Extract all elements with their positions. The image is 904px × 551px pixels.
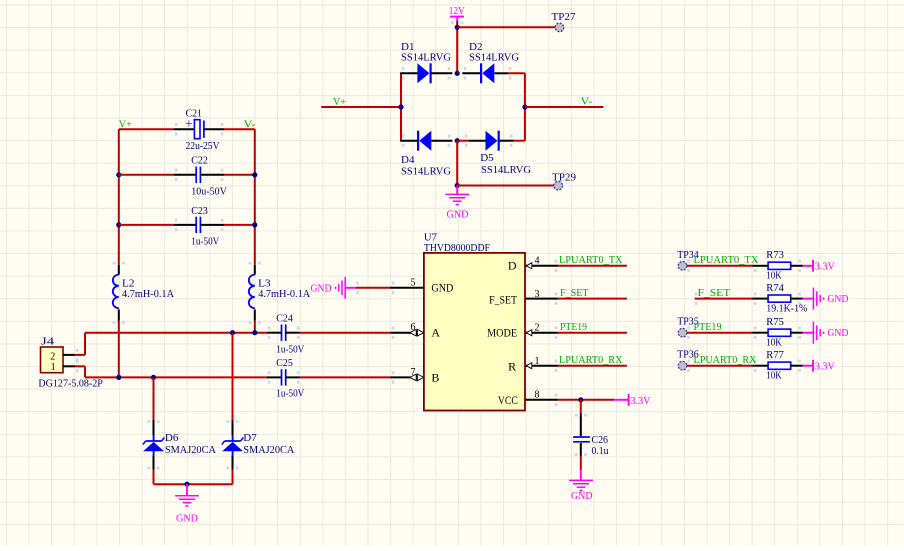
junction V- rail — [522, 104, 527, 109]
svg-text:D: D — [508, 259, 517, 273]
svg-text:PTE19: PTE19 — [560, 321, 587, 333]
svg-text:THVD8000DDF: THVD8000DDF — [424, 242, 490, 254]
net label V- cap bank — [244, 119, 256, 131]
pin number 2 — [535, 322, 540, 333]
svg-text:1u-50V: 1u-50V — [191, 235, 219, 247]
inductor L2 — [113, 275, 174, 309]
power symbol 3.3V R73 — [802, 260, 834, 273]
resistor R73 — [766, 249, 790, 281]
svg-text:GND: GND — [571, 490, 593, 502]
resistor R77 — [766, 349, 790, 381]
svg-text:1u-50V: 1u-50V — [276, 344, 304, 356]
pin name GND — [431, 281, 453, 295]
pin lead C24 right — [286, 332, 300, 334]
wire PTE19 — [558, 332, 627, 334]
IC U7 body — [424, 231, 525, 410]
svg-text:SS14LRVG: SS14LRVG — [469, 52, 519, 64]
junction C22 left — [116, 172, 121, 177]
capacitor C25 — [276, 357, 304, 400]
wire C21 row left — [119, 128, 175, 130]
svg-text:R77: R77 — [766, 349, 784, 361]
wire bridge bottom to GND node — [456, 141, 458, 186]
wire D7 to GND row — [232, 469, 234, 484]
svg-text:SS14LRVG: SS14LRVG — [401, 52, 451, 64]
net label PTE19 — [694, 321, 722, 333]
wire VCC node down — [580, 400, 582, 414]
svg-text:D6: D6 — [165, 432, 179, 444]
junction B rail L2 — [116, 375, 121, 380]
pin lead U7 pin1 R — [525, 363, 558, 369]
junction B rail D6 riser — [151, 375, 156, 380]
svg-text:10K: 10K — [766, 370, 782, 382]
pin number 1 — [535, 356, 540, 367]
svg-text:C23: C23 — [191, 205, 208, 217]
wire C21 row right — [224, 128, 255, 130]
junction C23 left — [116, 222, 121, 227]
svg-text:F_SET: F_SET — [489, 292, 518, 306]
wire V+ — [321, 106, 401, 108]
svg-text:22u-25V: 22u-25V — [186, 140, 220, 152]
wire J4 pin2 to A rail — [75, 333, 86, 355]
wire LPUART0_TX row — [687, 265, 753, 267]
pin number 8 — [535, 390, 540, 401]
svg-text:F_SET: F_SET — [560, 287, 589, 299]
svg-text:2: 2 — [50, 351, 55, 362]
svg-text:GND: GND — [176, 513, 198, 525]
pin lead U7 pin4 D — [525, 263, 558, 269]
pin lead C22 left — [174, 174, 196, 176]
pin lead D4 cathode — [400, 140, 417, 142]
svg-text:A: A — [431, 326, 440, 340]
pin number 4 — [535, 256, 540, 267]
wire L2 to B rail — [118, 321, 120, 378]
diode D7 — [222, 432, 295, 456]
svg-text:0.1u: 0.1u — [592, 445, 609, 457]
pin lead D5 cathode — [499, 140, 514, 142]
pin lead U7 pin2 MODE — [525, 330, 558, 336]
ground GND bridge — [445, 186, 469, 221]
pin lead D2 anode — [494, 72, 508, 74]
svg-text:J4: J4 — [41, 336, 55, 348]
pin lead U7 pin3 F_SET — [525, 298, 558, 300]
pin number 6 — [411, 322, 416, 333]
pin lead R75 right — [791, 332, 803, 334]
pin lead R77 right — [791, 365, 803, 367]
pin lead R74 left — [753, 298, 769, 300]
power symbol 3.3V R77 — [802, 360, 834, 373]
svg-text:LPUART0_RX: LPUART0_RX — [559, 354, 623, 366]
pin lead D6 bottom — [153, 455, 155, 470]
wire L3 to A rail — [254, 321, 256, 333]
pin lead C24 left — [267, 332, 282, 334]
junction bridge bottom — [455, 138, 460, 143]
pin name B — [431, 371, 439, 385]
svg-text:DG127-5.08-2P: DG127-5.08-2P — [38, 378, 103, 390]
wire 12V node to TP27 — [457, 26, 555, 28]
test point TP35 — [677, 316, 699, 337]
wire bridge left rail — [400, 73, 402, 140]
wire C22 row right — [224, 174, 255, 176]
svg-text:C24: C24 — [276, 313, 293, 325]
pin lead C22 right — [200, 174, 224, 176]
junction A rail D7 riser — [230, 330, 235, 335]
wire LPUART0_RX row — [687, 365, 753, 367]
svg-text:SS14LRVG: SS14LRVG — [401, 165, 451, 177]
wire V- cap rail right — [254, 129, 256, 265]
connector J4 — [38, 336, 103, 390]
diode D6 — [143, 432, 216, 456]
resistor R75 — [766, 316, 790, 348]
pin name MODE — [487, 326, 517, 340]
svg-text:GND: GND — [827, 327, 848, 339]
pin lead C21 left — [174, 128, 194, 130]
svg-text:4.7mH-0.1A: 4.7mH-0.1A — [122, 288, 174, 300]
svg-text:MODE: MODE — [487, 326, 517, 340]
net label LPUART0_TX — [694, 254, 759, 266]
wire C23 row right — [224, 224, 255, 226]
junction VCC node — [578, 397, 583, 402]
pin lead C25 right — [286, 376, 300, 378]
power symbol 3.3V VCC — [614, 394, 650, 407]
svg-text:R74: R74 — [766, 282, 784, 294]
junction bridge top — [455, 71, 460, 76]
net label LPUART0_RX — [559, 354, 623, 366]
svg-text:LPUART0_RX: LPUART0_RX — [694, 354, 757, 366]
pin number 7 — [411, 367, 416, 378]
wire D6 to GND row — [153, 469, 155, 484]
svg-text:3.3V: 3.3V — [631, 395, 651, 407]
ground GND U7 pin5 — [311, 277, 357, 299]
ground GND C26 — [569, 470, 593, 502]
wire U7 pin5 to ground — [356, 287, 391, 289]
wire D5 to right rail — [513, 140, 525, 142]
pin lead R73 right — [791, 265, 803, 267]
test point TP34 — [677, 249, 699, 270]
net label F_SET — [698, 287, 731, 299]
svg-text:4.7mH-0.1A: 4.7mH-0.1A — [258, 288, 310, 300]
wire C26 to GND — [580, 456, 582, 471]
pin lead L3 top — [254, 265, 256, 275]
pin name F_SET — [489, 292, 518, 306]
wire PTE19 row — [687, 332, 753, 334]
wire VCC to 3.3V — [558, 399, 615, 401]
svg-text:D4: D4 — [401, 154, 415, 166]
pin lead D4 anode — [431, 140, 452, 142]
diode D4 — [401, 131, 451, 178]
pin lead D2 cathode — [462, 72, 480, 74]
wire D6 riser — [153, 377, 155, 420]
pin lead D5 anode — [469, 140, 486, 142]
test point TP27 — [552, 11, 576, 32]
svg-text:1: 1 — [51, 362, 56, 373]
net label V+ — [333, 96, 346, 108]
wire GND node to TP29 — [457, 185, 554, 187]
diode D2 — [469, 41, 519, 83]
svg-text:PTE19: PTE19 — [694, 321, 722, 333]
pin lead C21 right — [204, 128, 224, 130]
wire C22 row left — [119, 174, 175, 176]
pin lead U7 pin8 VCC — [525, 399, 558, 401]
net label PTE19 — [560, 321, 587, 333]
svg-text:10u-50V: 10u-50V — [191, 186, 227, 198]
pin lead L2 top — [118, 265, 120, 275]
svg-text:B: B — [431, 371, 439, 385]
wire V- — [525, 106, 604, 108]
svg-text:3.3V: 3.3V — [815, 261, 835, 273]
pin lead D1 cathode — [432, 72, 453, 74]
capacitor C26 — [573, 434, 609, 457]
ground GND left — [175, 484, 199, 525]
capacitor C23 — [191, 205, 219, 247]
svg-text:D5: D5 — [480, 152, 494, 164]
power symbol 12V — [449, 5, 465, 22]
pin number 3 — [535, 289, 540, 300]
wire dot to D5 — [457, 140, 469, 142]
test point TP36 — [677, 349, 699, 370]
wire J4 pin1 to B rail — [75, 366, 86, 377]
ground GND R75 — [802, 322, 848, 344]
svg-text:R73: R73 — [766, 249, 784, 261]
svg-text:GND: GND — [827, 293, 848, 305]
pin lead D7 top — [232, 420, 234, 435]
pin name D — [508, 259, 517, 273]
capacitor C24 — [276, 313, 304, 356]
wire C24 to U7 A — [300, 332, 392, 334]
svg-text:SMAJ20CA: SMAJ20CA — [243, 444, 294, 456]
svg-text:10K: 10K — [766, 270, 782, 282]
pin lead R73 left — [753, 265, 769, 267]
svg-text:D7: D7 — [243, 432, 257, 444]
junction GND node — [455, 183, 460, 188]
pin name A — [431, 326, 440, 340]
svg-text:V-: V- — [580, 96, 592, 108]
junction C23 right — [252, 222, 257, 227]
net label LPUART0_RX — [694, 354, 757, 366]
net label V- — [580, 96, 592, 108]
capacitor C21 — [185, 108, 219, 153]
inductor L3 — [249, 275, 310, 309]
svg-text:SS14LRVG: SS14LRVG — [481, 164, 531, 176]
svg-text:TP27: TP27 — [552, 11, 576, 23]
pin lead L3 bottom — [254, 309, 256, 320]
svg-text:SMAJ20CA: SMAJ20CA — [165, 444, 216, 456]
net label V+ cap bank — [119, 119, 132, 131]
svg-text:1u-50V: 1u-50V — [276, 388, 304, 400]
svg-text:19.1K-1%: 19.1K-1% — [766, 302, 807, 314]
pin lead C23 right — [200, 224, 224, 226]
pin lead D7 bottom — [232, 455, 234, 470]
pin name R — [508, 359, 516, 373]
svg-text:C25: C25 — [276, 357, 293, 369]
junction C22 right — [252, 172, 257, 177]
svg-text:10K: 10K — [766, 337, 782, 349]
junction A rail L3 — [252, 330, 257, 335]
pin lead U7 pin7 B — [391, 374, 424, 381]
svg-text:C22: C22 — [191, 155, 208, 167]
diode D5 — [480, 131, 531, 176]
net label LPUART0_TX — [559, 254, 623, 266]
wire V+ cap rail left — [118, 129, 120, 265]
test point TP29 — [552, 172, 576, 190]
pin lead C26 bottom — [580, 443, 582, 456]
capacitor C22 — [191, 155, 227, 198]
pin lead U7 pin6 A — [391, 329, 424, 336]
wire GND row D6-D7 — [154, 483, 233, 485]
junction V+ rail — [398, 104, 403, 109]
svg-text:LPUART0_TX: LPUART0_TX — [559, 254, 623, 266]
svg-text:12V: 12V — [449, 5, 465, 17]
pin lead R74 right — [791, 298, 803, 300]
svg-text:GND: GND — [311, 283, 332, 295]
pin lead C23 left — [174, 224, 196, 226]
pin number 5 — [411, 277, 416, 288]
junction GND row — [184, 482, 189, 487]
ground GND R74 — [802, 288, 848, 310]
svg-text:3.3V: 3.3V — [815, 360, 835, 372]
wire B rail — [85, 376, 268, 378]
svg-text:R75: R75 — [766, 316, 784, 328]
wire LPUART0_TX — [558, 265, 627, 267]
wire bridge right rail — [524, 73, 526, 140]
pin name VCC — [498, 393, 518, 407]
pin lead L2 bottom — [118, 309, 120, 320]
wire C25 to U7 B — [300, 376, 392, 378]
pin lead J4 pin2 — [63, 354, 75, 356]
pin lead R77 left — [753, 365, 769, 367]
svg-text:F_SET: F_SET — [698, 287, 731, 299]
pin lead J4 pin1 — [63, 365, 75, 367]
wire 12V stem to bridge top — [456, 21, 458, 73]
svg-text:VCC: VCC — [498, 393, 518, 407]
resistor R74 — [766, 282, 807, 314]
wire F_SET — [558, 298, 627, 300]
svg-text:GND: GND — [431, 281, 453, 295]
diode D1 — [401, 41, 451, 83]
wire A rail — [85, 332, 268, 334]
wire D2 to right rail — [508, 72, 525, 74]
pin lead C26 top — [580, 414, 582, 437]
pin lead D6 top — [153, 420, 155, 435]
svg-text:+: + — [185, 115, 192, 130]
wire D7 riser — [232, 333, 234, 421]
svg-text:R: R — [508, 359, 516, 373]
svg-text:LPUART0_TX: LPUART0_TX — [694, 254, 759, 266]
svg-text:GND: GND — [447, 208, 469, 220]
wire C23 row left — [119, 224, 175, 226]
net label F_SET — [560, 287, 589, 299]
svg-text:5: 5 — [411, 277, 416, 288]
pin hotspot marks — [76, 21, 801, 469]
pin lead C25 left — [267, 376, 282, 378]
pin lead U7 pin5 — [390, 287, 424, 289]
wire F_SET row — [695, 298, 753, 300]
wire LPUART0_RX — [558, 365, 627, 367]
pin lead R75 left — [753, 332, 769, 334]
junction 12V node — [455, 25, 460, 30]
pin lead D1 anode — [400, 72, 417, 74]
